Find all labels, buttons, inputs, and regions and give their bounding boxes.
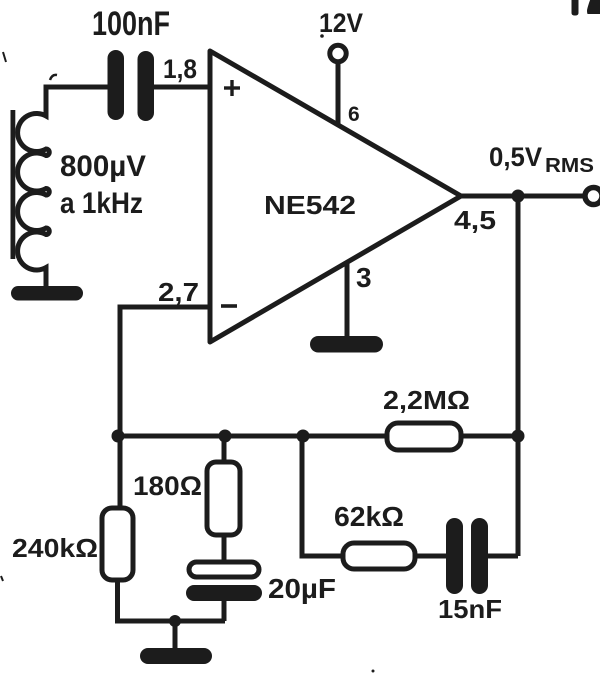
op-amp U1 triangle NE542 — [210, 51, 461, 342]
wire node to ground — [173, 621, 178, 650]
bottom junction node — [169, 615, 181, 627]
capacitor C1 plates (100nF) — [108, 50, 155, 121]
svg-text:15nF: 15nF — [438, 594, 502, 624]
svg-text:20µF: 20µF — [268, 573, 336, 604]
+ input mark — [224, 80, 240, 96]
- input mark — [221, 304, 237, 308]
svg-text:2,2MΩ: 2,2MΩ — [383, 385, 470, 415]
wire 240k to bottom wire — [118, 580, 226, 621]
wire pin 3 — [345, 262, 350, 340]
svg-text:12V: 12V — [319, 8, 363, 38]
wire 180R to 20uF — [222, 535, 227, 562]
wire output node down right side — [516, 198, 521, 556]
feedback bus wire — [120, 434, 388, 439]
capacitor 20uF bottom plate — [186, 585, 262, 601]
svg-text:240kΩ: 240kΩ — [12, 533, 98, 563]
wire C1 to op-amp + input — [154, 85, 208, 90]
label 0,5V RMS — [489, 142, 594, 177]
svg-text:4,5: 4,5 — [454, 205, 496, 235]
svg-text:RMS: RMS — [545, 155, 594, 177]
resistor 240k body — [102, 508, 133, 580]
wire bus to 240k — [118, 436, 123, 508]
svg-text:2,7: 2,7 — [158, 277, 199, 307]
resistor 62k body — [343, 543, 415, 569]
node right of bus — [512, 430, 525, 443]
resistor 2,2M body — [387, 423, 461, 450]
svg-text:1,8: 1,8 — [163, 54, 197, 84]
wire pin 6 to supply — [336, 64, 341, 124]
node at 62k branch — [297, 430, 310, 443]
svg-text:0,5V: 0,5V — [489, 142, 542, 172]
svg-text:100nF: 100nF — [92, 5, 170, 43]
resistor 180R body — [207, 462, 240, 535]
output wire pin 4,5 — [461, 194, 586, 199]
wire bus to 62k — [302, 436, 343, 556]
inductor L1 winding — [18, 92, 50, 288]
svg-text:6: 6 — [348, 103, 360, 126]
ground bottom — [140, 648, 212, 664]
svg-text:a 1kHz: a 1kHz — [60, 187, 143, 220]
wire bus to 180R — [222, 436, 227, 462]
output junction node — [512, 190, 525, 203]
svg-text:NE542: NE542 — [264, 190, 356, 220]
wire 62k to 15nF — [415, 554, 446, 559]
svg-text:3: 3 — [356, 262, 372, 293]
wire from - input down to feedback bus — [120, 307, 209, 436]
12V supply terminal — [320, 34, 346, 61]
svg-text:180Ω: 180Ω — [133, 471, 202, 501]
wire 15nF to right side — [488, 554, 518, 559]
wire input from coil top to capacitor C1 — [46, 87, 108, 116]
svg-text:62kΩ: 62kΩ — [334, 501, 404, 532]
node at 180R branch — [219, 430, 232, 443]
inductor L1 core bar — [11, 110, 16, 259]
ground for L1 — [11, 286, 83, 301]
capacitor 20uF top plate — [189, 562, 259, 577]
page number 12 top right — [572, 0, 600, 16]
node at bus left — [112, 430, 125, 443]
ground pin 3 — [310, 336, 383, 353]
output terminal circle — [585, 188, 600, 205]
capacitor 15nF plates — [446, 518, 488, 594]
wire 20uF to bottom wire — [222, 601, 227, 621]
svg-text:800µV: 800µV — [60, 150, 146, 183]
wire 2,2M to right node — [461, 434, 518, 439]
